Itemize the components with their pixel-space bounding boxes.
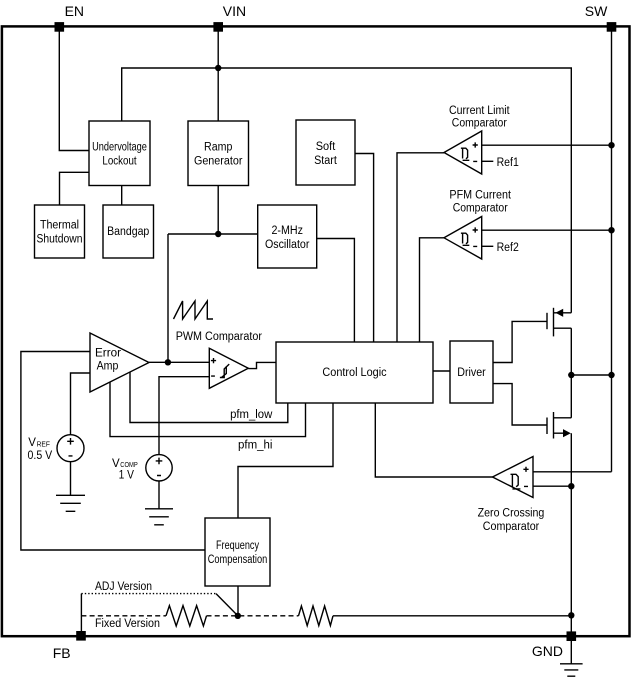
error amp U1 (90, 333, 149, 392)
control logic block (276, 342, 433, 403)
svg-text:PWM Comparator: PWM Comparator (176, 331, 262, 343)
svg-text:Amp: Amp (97, 361, 119, 373)
svg-text:V: V (112, 458, 120, 470)
svg-text:Frequency: Frequency (216, 540, 259, 552)
transistor high-side PMOS Q1 (547, 308, 571, 337)
wire FET midpoint node (570, 328, 572, 418)
svg-text:Fixed Version: Fixed Version (95, 618, 160, 630)
svg-text:PFM Current: PFM Current (449, 189, 511, 201)
wire fixed version dashed middle (207, 615, 299, 617)
svg-text:Zero Crossing: Zero Crossing (478, 508, 545, 520)
wire pfm_hi from error amp to control logic (110, 382, 306, 437)
junction ramp summing node (215, 231, 221, 237)
wire soft start to control logic (355, 154, 374, 343)
undervoltage lockout block (89, 121, 150, 186)
junction zero crossing - input (568, 483, 574, 489)
svg-text:pfm_low: pfm_low (230, 409, 273, 421)
wire feedback from FB network to error amp input (21, 352, 205, 551)
ground VCOMP (145, 509, 173, 525)
svg-text:pfm_hi: pfm_hi (238, 440, 273, 452)
svg-text:Shutdown: Shutdown (37, 234, 83, 246)
wire ramp generator output to summing node (217, 186, 219, 235)
current limit comparator U3 (444, 131, 482, 174)
svg-text:Control Logic: Control Logic (322, 367, 386, 379)
svg-text:0.5 V: 0.5 V (28, 450, 53, 462)
svg-text:Thermal: Thermal (40, 220, 79, 232)
ramp generator block (188, 121, 249, 186)
svg-text:Generator: Generator (194, 155, 243, 167)
wire ADJ version dotted (81, 593, 216, 595)
wire control logic to driver (433, 370, 450, 372)
wire VIN top rail to UVL and high-side FET source (122, 68, 572, 313)
svg-text:2-MHz: 2-MHz (271, 225, 303, 237)
wire UVL to bandgap (121, 186, 123, 206)
junction VIN top rail (215, 65, 221, 71)
svg-text:Oscillator: Oscillator (265, 239, 310, 251)
svg-text:COMP: COMP (120, 460, 138, 469)
svg-text:Current Limit: Current Limit (449, 105, 510, 117)
wire control logic to frequency compensation (238, 403, 333, 518)
wire Ref2 stub (482, 245, 494, 247)
svg-text:Ramp: Ramp (204, 141, 232, 153)
soft start block (296, 120, 355, 185)
svg-text:Bandgap: Bandgap (107, 226, 149, 238)
svg-text:REF: REF (37, 439, 51, 448)
junction SW FET midpoint (608, 372, 614, 378)
pin GND (567, 631, 577, 641)
junction SW current limit (608, 142, 614, 148)
junction SW pfm comparator (608, 227, 614, 233)
wire FET midpoint to SW rail (571, 374, 611, 376)
wire zero crossing - input (533, 485, 571, 487)
wire current limit comparator output to control logic (397, 153, 444, 342)
resistor R2 (299, 606, 334, 626)
wire FB pin riser (80, 594, 82, 636)
wire VIN rail to ramp generator (217, 31, 219, 121)
thermal shutdown block (35, 205, 85, 258)
wire UVL to thermal shutdown (60, 172, 90, 205)
wire zero crossing output to control logic (375, 403, 492, 477)
svg-text:Driver: Driver (457, 367, 486, 379)
svg-text:Lockout: Lockout (102, 155, 137, 167)
wire EN to undervoltage lockout (59, 31, 89, 151)
wire ramp node to oscillator (168, 233, 258, 235)
svg-text:SW: SW (585, 3, 608, 19)
wire pfm_low from error amp to control logic (130, 372, 288, 423)
driver block (450, 341, 493, 403)
wire PFM comparator + input from SW rail (482, 229, 612, 231)
svg-text:VIN: VIN (223, 3, 246, 19)
wire PWM comparator output to control logic (248, 362, 276, 368)
wire oscillator to control logic (317, 239, 355, 343)
pfm current comparator U4 (444, 217, 482, 260)
svg-text:Start: Start (314, 155, 338, 167)
wire Ref1 stub (482, 160, 494, 162)
zero crossing comparator U5 (493, 457, 534, 498)
pin VIN (213, 22, 223, 32)
ground at GND pin (560, 641, 583, 676)
svg-text:Ref1: Ref1 (497, 157, 519, 169)
transistor low-side NMOS Q2 (547, 412, 571, 439)
wire ramp node to PWM summing junction (167, 234, 169, 362)
wire low-side source to ground rail (570, 433, 572, 636)
svg-text:Comparator: Comparator (452, 118, 507, 130)
pin EN (55, 22, 65, 32)
junction ground rail bottom (568, 612, 574, 618)
wire SW rail (611, 31, 613, 472)
svg-text:Comparator: Comparator (483, 521, 540, 533)
wire error amp output to PWM comparator (149, 361, 209, 363)
svg-text:Comparator: Comparator (453, 203, 508, 215)
svg-text:FB: FB (53, 645, 71, 661)
wire fixed version dashed left (81, 615, 166, 617)
pin FB (76, 631, 86, 641)
wire zero crossing + input from SW rail (533, 471, 612, 473)
wire frequency compensation to FB divider node (237, 586, 239, 616)
svg-text:Error: Error (95, 347, 121, 359)
wire ADJ selector diagonal (216, 594, 238, 616)
pwm comparator U2 (209, 348, 248, 388)
junction error amp output (165, 359, 171, 365)
bandgap block (103, 205, 154, 258)
sawtooth ramp waveform (174, 301, 214, 319)
wire driver to low-side gate (493, 384, 547, 425)
wire PFM comparator output to control logic (420, 238, 445, 342)
wire VREF to ground (70, 462, 72, 496)
voltage source VCOMP (146, 455, 172, 481)
svg-text:Undervoltage: Undervoltage (92, 141, 147, 153)
voltage source VREF (57, 435, 84, 462)
svg-text:Soft: Soft (316, 141, 336, 153)
wire VREF to error amp input (71, 373, 91, 435)
wire VCOMP to PWM comparator - input (159, 377, 209, 455)
2-MHz oscillator block (258, 205, 317, 268)
resistor R1 (166, 606, 207, 626)
ground VREF (56, 495, 85, 511)
pin SW (607, 22, 617, 32)
svg-text:ADJ Version: ADJ Version (95, 581, 152, 593)
wire driver to high-side gate (493, 321, 547, 362)
junction FET midpoint (568, 372, 574, 378)
svg-text:1 V: 1 V (119, 469, 135, 481)
svg-text:V: V (28, 437, 36, 449)
svg-text:GND: GND (532, 643, 563, 659)
wire divider to ground rail (333, 615, 571, 617)
frequency compensation block (205, 518, 270, 586)
junction FB divider node (235, 613, 241, 619)
svg-text:EN: EN (65, 3, 84, 19)
svg-text:Compensation: Compensation (208, 554, 268, 566)
wire VCOMP to ground (158, 481, 160, 509)
wire current limit comparator + input from SW rail (482, 144, 612, 146)
svg-text:Ref2: Ref2 (497, 242, 519, 254)
